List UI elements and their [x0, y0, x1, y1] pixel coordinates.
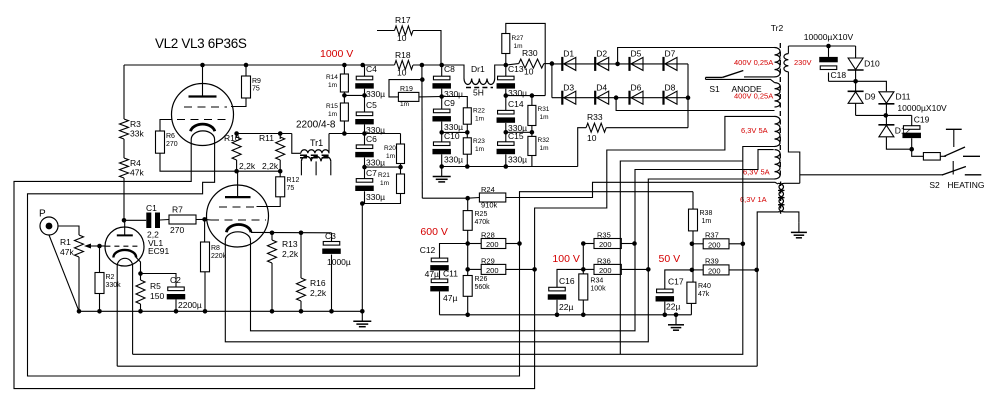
- svg-text:C19: C19: [914, 115, 930, 125]
- node VL1 grid: [97, 244, 102, 249]
- node cathode R13: [270, 231, 275, 236]
- svg-text:C18: C18: [831, 70, 847, 80]
- node zero C15: [504, 164, 509, 169]
- wire R6 bottom to plate row: [160, 153, 237, 171]
- resistor R2: [95, 273, 121, 294]
- node psu rail gnd: [674, 313, 679, 318]
- label S1: [709, 84, 720, 94]
- svg-text:R7: R7: [172, 205, 183, 215]
- wire C1 to R7: [160, 219, 169, 222]
- wire D12 top lead: [885, 115, 887, 124]
- svg-text:50 V: 50 V: [659, 253, 681, 265]
- transformer Tr3 core: [780, 182, 782, 214]
- svg-text:R26: R26: [475, 276, 488, 283]
- svg-text:D3: D3: [563, 83, 574, 93]
- wire 600V to C12: [440, 244, 468, 259]
- transformer Tr3 secondary: [779, 183, 785, 212]
- transformer Tr2 core: [779, 43, 781, 177]
- node B+ R15: [342, 131, 347, 136]
- svg-text:330µ: 330µ: [508, 155, 527, 165]
- capacitor C18: [819, 57, 846, 80]
- wire diode row1: [552, 63, 688, 65]
- wire R5 top: [140, 274, 142, 281]
- label 2200/4-8: [295, 119, 338, 131]
- svg-text:R22: R22: [473, 108, 485, 115]
- label Tr1: [308, 138, 326, 148]
- diode D4: [595, 83, 609, 105]
- node D8 out: [686, 95, 691, 100]
- svg-text:C5: C5: [366, 100, 377, 110]
- wire R9 to VL2 screen: [231, 98, 246, 107]
- svg-text:200: 200: [708, 240, 721, 249]
- node rail R1: [77, 309, 82, 314]
- resistor R17: [395, 15, 414, 43]
- capacitor C8: [432, 64, 463, 99]
- capacitor C16: [548, 276, 575, 312]
- capacitor C7: [355, 168, 385, 202]
- transformer Tr2 winding 6.3V-1: [775, 116, 781, 146]
- ground heater secondary: [791, 222, 807, 237]
- svg-text:2200/4-8: 2200/4-8: [296, 120, 336, 131]
- node rail R13: [270, 309, 275, 314]
- svg-text:R3: R3: [130, 119, 141, 129]
- node mult row2: [884, 113, 889, 118]
- svg-text:R37: R37: [705, 231, 719, 240]
- svg-text:C9: C9: [444, 98, 455, 108]
- resistor R4: [120, 158, 145, 178]
- svg-text:220k: 220k: [211, 253, 227, 260]
- node R29 out: [532, 267, 537, 272]
- wire R36 right: [621, 268, 648, 270]
- wire R26 bottom: [467, 296, 469, 315]
- resistor R40: [687, 282, 711, 303]
- node rail R8: [203, 309, 208, 314]
- wire R5 bottom: [140, 304, 142, 311]
- svg-text:2,2k: 2,2k: [310, 288, 327, 298]
- svg-text:VL2 VL3 6P36S: VL2 VL3 6P36S: [155, 36, 247, 51]
- svg-text:R6: R6: [166, 133, 175, 140]
- label 100 V: [552, 253, 579, 265]
- wire R10 top lead: [236, 134, 238, 139]
- svg-text:100 V: 100 V: [552, 253, 579, 265]
- capacitor C15: [497, 131, 528, 165]
- wire VL3 cathode row: [251, 231, 332, 233]
- tube VL2 screen grid: [184, 106, 227, 108]
- node B+ C5C6: [362, 131, 367, 136]
- switch S2 pole1: [944, 147, 980, 156]
- resistor R14: [326, 74, 348, 92]
- wire C17 bottom: [664, 302, 666, 315]
- resistor fuse S2: [923, 153, 940, 161]
- wire C6-C7 link: [364, 158, 366, 179]
- wire R28 heater loop: [28, 140, 520, 377]
- wire D10 top lead: [855, 46, 857, 58]
- wire R17 left stub: [377, 30, 395, 32]
- svg-text:D1: D1: [563, 49, 574, 59]
- svg-text:910k: 910k: [481, 201, 498, 210]
- node C9C10: [439, 130, 444, 135]
- svg-text:S1: S1: [709, 84, 720, 94]
- svg-text:R31: R31: [538, 106, 550, 113]
- wire heater jog a: [620, 161, 743, 354]
- svg-text:75: 75: [252, 86, 260, 93]
- svg-text:330k: 330k: [106, 282, 122, 289]
- switch S2 pole2: [942, 167, 981, 176]
- svg-text:6,3V 5A: 6,3V 5A: [741, 126, 768, 135]
- wire C7 bottom: [362, 191, 364, 203]
- diode D5: [630, 49, 644, 71]
- wire Tr3 right bottom: [785, 212, 799, 223]
- wire C19 top lead: [911, 115, 913, 125]
- svg-text:R25: R25: [475, 211, 488, 218]
- wire R34 bottom: [582, 300, 584, 315]
- wire VL2 plate lead: [202, 65, 204, 97]
- node VL1 cathode: [138, 271, 143, 276]
- transformer Tr3 primary: [778, 183, 784, 212]
- svg-text:1000µ: 1000µ: [327, 257, 351, 267]
- wire C5 bottom: [364, 125, 366, 134]
- svg-text:R5: R5: [150, 281, 161, 291]
- tube VL3 heater: [225, 232, 250, 241]
- wire C6 top lead: [364, 134, 366, 145]
- svg-text:R1: R1: [60, 237, 71, 247]
- svg-text:R32: R32: [538, 137, 550, 144]
- wire R21 bottom: [365, 194, 401, 204]
- node plate row R10: [234, 169, 239, 174]
- node psu rail R34: [581, 313, 586, 318]
- svg-text:600 V: 600 V: [420, 226, 447, 238]
- node bus-R18out: [420, 63, 425, 68]
- wire C3 top: [331, 233, 333, 242]
- resistor R11: [259, 133, 285, 171]
- wire R17 right to bus: [413, 31, 441, 66]
- resistor R8: [201, 242, 227, 272]
- wire R27 bottom: [505, 54, 507, 66]
- tube VL3 control grid: [211, 219, 266, 221]
- node VL3 grid: [202, 217, 207, 222]
- label 600 V: [420, 226, 447, 238]
- capacitor C3: [322, 231, 351, 267]
- node R22R23: [465, 130, 470, 135]
- svg-text:270: 270: [166, 141, 178, 148]
- wire fuse to S2: [940, 155, 946, 157]
- tube VL2 heater: [191, 131, 214, 140]
- wire R20 bottom: [400, 164, 402, 168]
- wire VL2b plate lead: [237, 171, 239, 197]
- svg-text:5H: 5H: [473, 88, 484, 98]
- resistor R28: [481, 231, 506, 250]
- svg-text:2,2k: 2,2k: [262, 161, 279, 171]
- wire VL1 cathode lead: [136, 258, 140, 274]
- label 6,3V 1A: [740, 195, 767, 204]
- svg-text:22µ: 22µ: [666, 302, 680, 312]
- svg-text:C3: C3: [325, 231, 336, 241]
- svg-text:47k: 47k: [698, 291, 710, 298]
- capacitor C5: [355, 100, 385, 135]
- diode D8: [664, 83, 678, 105]
- wire bus to R30: [506, 64, 519, 65]
- resistor R35: [594, 231, 621, 250]
- wire R14R15 to caps: [344, 94, 364, 96]
- label 400V 0,25A second: [734, 92, 773, 101]
- svg-text:R17: R17: [395, 15, 411, 25]
- svg-text:C12: C12: [420, 245, 436, 255]
- ground amp rail: [353, 311, 371, 326]
- svg-text:2,2k: 2,2k: [282, 249, 299, 259]
- wire Tr1 primary right lead: [328, 134, 330, 154]
- wire R15 bottom: [343, 121, 345, 134]
- wire R20 top: [400, 134, 402, 145]
- node C10 gnd: [439, 164, 444, 169]
- wire C13 top lead: [505, 65, 507, 76]
- svg-text:R8: R8: [211, 245, 220, 252]
- wire R23 bottom: [466, 154, 468, 166]
- resistor R32: [528, 136, 550, 155]
- svg-text:S2: S2: [929, 180, 940, 190]
- svg-text:560k: 560k: [475, 284, 491, 291]
- diode D10: [848, 58, 880, 70]
- wire C6C7 to R20R21: [365, 166, 401, 168]
- wire C9-C10 link: [441, 122, 443, 142]
- wire R11 bottom lead: [279, 160, 281, 171]
- svg-text:C1: C1: [146, 203, 157, 213]
- svg-text:C15: C15: [508, 131, 524, 141]
- wire D9 bottom lead: [855, 104, 857, 116]
- wire winding3 bottom: [133, 147, 775, 355]
- wire R1 bottom: [78, 257, 80, 311]
- wire grid to R2: [99, 246, 101, 273]
- diode D11: [878, 92, 910, 104]
- svg-text:47µ: 47µ: [443, 293, 457, 303]
- node rail R5: [138, 309, 143, 314]
- wire VL1 heater pin A: [116, 266, 118, 366]
- wire C11 bottom: [439, 292, 441, 315]
- wire D7D8 junction: [687, 64, 689, 128]
- wire R4 to plate node: [123, 178, 125, 220]
- node C18 top: [826, 44, 831, 49]
- wire C8-C9 link: [441, 89, 443, 109]
- node C7 gnd: [360, 201, 365, 206]
- svg-text:R33: R33: [587, 112, 603, 122]
- svg-text:R9: R9: [252, 78, 261, 85]
- svg-text:1m: 1m: [380, 180, 389, 187]
- wire mult row1: [829, 81, 887, 91]
- wire tap1 to winding1: [618, 48, 775, 64]
- svg-text:R4: R4: [130, 158, 141, 168]
- wire jack diagonal: [49, 235, 79, 311]
- svg-text:R36: R36: [597, 257, 611, 266]
- node R35 left: [581, 241, 586, 246]
- wire C8 top lead: [441, 65, 443, 76]
- wire mult row2: [856, 114, 912, 116]
- svg-text:D5: D5: [631, 49, 642, 59]
- wire Tr1 primary left lead: [292, 134, 301, 154]
- wire cathode to C2: [141, 274, 177, 288]
- svg-text:1m: 1m: [386, 153, 395, 160]
- svg-text:C11: C11: [443, 269, 458, 279]
- wire R37 right: [729, 243, 743, 245]
- resistor R37: [703, 231, 729, 250]
- wire rail to C7 bottom: [361, 204, 363, 312]
- transformer Tr2 winding 400V-2: [775, 83, 781, 107]
- resistor R30: [519, 48, 544, 77]
- capacitor C14: [497, 99, 528, 133]
- resistor R39: [703, 257, 729, 276]
- svg-text:1m: 1m: [475, 116, 484, 123]
- wire plate node to C1: [124, 219, 146, 221]
- resistor R38: [689, 209, 713, 231]
- label 6,3V 5A first: [741, 126, 768, 135]
- wire bus R18 right lead: [413, 64, 442, 66]
- label 50 V: [659, 253, 681, 265]
- wire bus drop x422: [421, 65, 423, 198]
- node B+ row R10: [234, 131, 239, 136]
- svg-text:1000 V: 1000 V: [320, 48, 353, 60]
- wire R2 bottom: [99, 294, 101, 312]
- node VL2 plate-bus: [200, 63, 205, 68]
- wire VL1 plate lead: [124, 220, 126, 235]
- svg-text:R34: R34: [590, 278, 603, 285]
- svg-text:10000µX10V: 10000µX10V: [804, 32, 854, 42]
- wire R38 top: [692, 192, 694, 209]
- svg-text:1m: 1m: [475, 146, 484, 153]
- svg-text:R29: R29: [481, 257, 495, 266]
- svg-text:22µ: 22µ: [559, 302, 573, 312]
- node R20R21: [398, 165, 403, 170]
- label VL1: [148, 238, 163, 248]
- switch S1: [706, 71, 775, 80]
- wire bus to R9: [245, 65, 247, 76]
- wire C18 bottom lead: [828, 73, 830, 82]
- svg-text:C16: C16: [559, 276, 575, 286]
- resistor R7: [169, 205, 196, 236]
- node bus C13: [504, 63, 509, 68]
- capacitor C2: [167, 275, 202, 310]
- wire R10 bottom lead: [236, 160, 238, 171]
- label 1000 V: [320, 48, 353, 60]
- wire amp ground rail: [79, 310, 362, 312]
- wire C15 bottom: [505, 154, 507, 166]
- svg-text:R19: R19: [400, 86, 413, 93]
- node rail C3: [329, 309, 334, 314]
- capacitor C6: [355, 134, 385, 168]
- svg-text:200: 200: [486, 240, 499, 249]
- node zero R23: [465, 164, 470, 169]
- wire tap2 to winding2: [616, 98, 774, 111]
- wire C13C14 row: [506, 95, 545, 97]
- wire R19 right: [419, 96, 442, 98]
- node R19 tap: [420, 77, 425, 82]
- wire C16 bottom: [556, 300, 558, 315]
- svg-text:1m: 1m: [540, 145, 549, 152]
- diode D3: [562, 83, 576, 105]
- resistor R23: [463, 138, 485, 154]
- wire R11 to R12: [279, 171, 281, 177]
- wire psu rail: [440, 314, 692, 316]
- node C13C14: [504, 93, 509, 98]
- wire R27 top loop: [506, 23, 545, 95]
- wire 100V column: [582, 244, 584, 274]
- node R24 left: [465, 196, 470, 201]
- svg-text:Dr1: Dr1: [471, 64, 485, 74]
- wire bus R18 left lead: [363, 64, 395, 66]
- node psu rail R26: [465, 313, 470, 318]
- node R36 right: [646, 267, 651, 272]
- svg-text:D8: D8: [665, 83, 676, 93]
- wire R8 bottom: [204, 272, 206, 312]
- wire R35 right: [621, 243, 635, 245]
- capacitor C4: [355, 64, 385, 99]
- resistor R19: [398, 86, 419, 108]
- svg-text:C14: C14: [508, 99, 524, 109]
- label 10000µX10V first: [804, 32, 854, 42]
- node rail ground: [360, 309, 365, 314]
- node plate row R11: [278, 169, 283, 174]
- resistor R22: [463, 108, 485, 125]
- wire 50V to C17: [665, 270, 692, 289]
- svg-text:230V: 230V: [794, 58, 812, 67]
- resistor R10: [224, 133, 256, 171]
- capacitor C1: [146, 203, 160, 240]
- transformer Tr1 secondary: [301, 156, 330, 175]
- wire grid to R8: [204, 219, 206, 242]
- wire heater branch b: [225, 179, 774, 342]
- wire 100V to C16: [557, 269, 583, 287]
- svg-text:200: 200: [599, 266, 612, 275]
- wire W_D: [117, 365, 757, 367]
- wire bus to R14: [343, 65, 345, 74]
- wire C4 top lead: [363, 65, 365, 76]
- wire R6 to VL2 grid: [160, 120, 172, 132]
- resistor R26: [463, 276, 490, 297]
- label P input: [39, 209, 46, 220]
- ground main filter: [433, 167, 451, 182]
- wire R24 to R25: [467, 198, 469, 210]
- wire R29 right: [506, 268, 535, 270]
- transformer Tr1 primary: [301, 150, 329, 154]
- svg-text:R14: R14: [326, 74, 338, 81]
- wire R19 left loop: [389, 80, 422, 97]
- wire R30 to D1: [544, 63, 552, 65]
- resistor R13: [268, 239, 299, 263]
- svg-text:10: 10: [587, 133, 597, 143]
- wire grid entry: [205, 218, 211, 221]
- diode D12: [878, 125, 910, 137]
- node bus-R9: [244, 63, 249, 68]
- wire D row link: [551, 64, 553, 98]
- choke Dr1: [442, 64, 506, 98]
- node 50V a: [690, 242, 695, 247]
- wire R39 left: [693, 269, 703, 271]
- diode D7: [664, 49, 678, 71]
- label 230V: [794, 58, 812, 67]
- label 10000µX10V second: [897, 103, 947, 113]
- tube VL3 plate: [225, 196, 251, 198]
- wire S1 lower: [706, 79, 775, 82]
- resistor R16: [297, 278, 327, 301]
- resistor R6: [156, 131, 178, 153]
- resistor R31: [528, 105, 550, 125]
- wire R13 bottom: [271, 263, 273, 311]
- node R37 right: [741, 242, 746, 247]
- node mult row1: [853, 79, 858, 84]
- resistor R3: [120, 119, 145, 139]
- svg-text:1m: 1m: [328, 111, 337, 118]
- svg-text:R13: R13: [282, 239, 298, 249]
- wire Tr3 right top: [785, 182, 800, 184]
- svg-text:D4: D4: [596, 83, 607, 93]
- wire R31 bottom: [531, 126, 533, 137]
